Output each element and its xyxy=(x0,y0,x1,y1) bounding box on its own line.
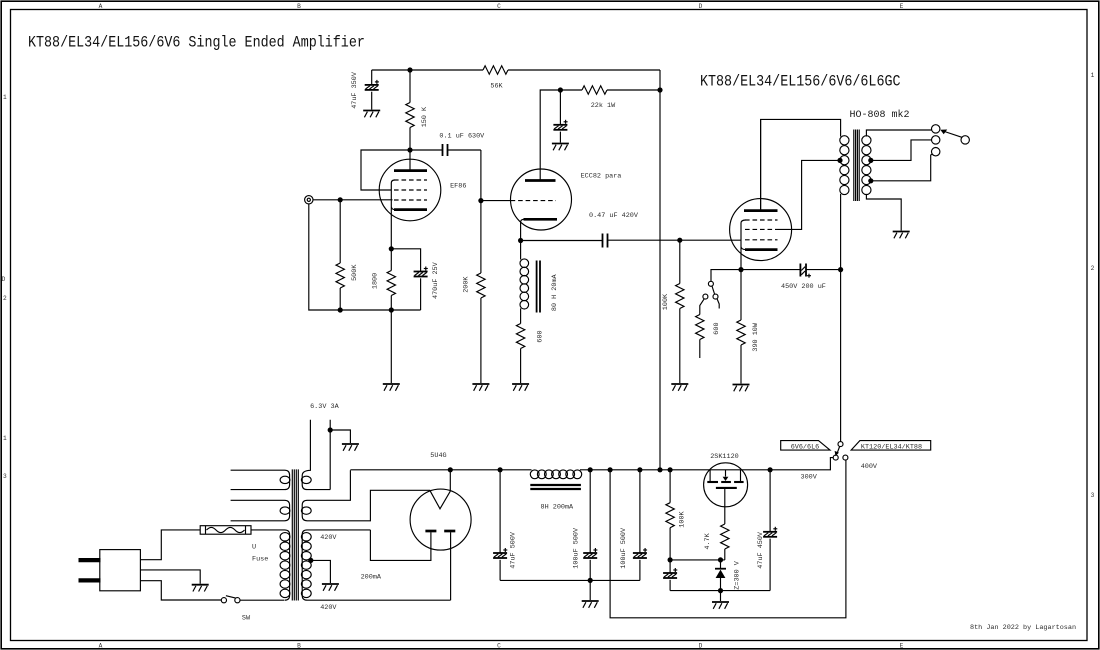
flag label KT120/EL34/KT88 xyxy=(851,441,931,452)
node ECC82 grid junction xyxy=(478,198,483,203)
svg-text:0.47 uF 420V: 0.47 uF 420V xyxy=(589,212,639,220)
resistor R 600 (cathode switch) xyxy=(696,299,722,358)
svg-text:450V 200 uF: 450V 200 uF xyxy=(781,283,826,291)
svg-text:150 K: 150 K xyxy=(421,106,429,127)
wire B+ filament line xyxy=(350,469,531,471)
svg-text:420V: 420V xyxy=(320,604,337,612)
svg-text:390 10W: 390 10W xyxy=(752,322,760,351)
wire zener to ground xyxy=(720,591,722,601)
svg-text:80 H 20mA: 80 H 20mA xyxy=(551,273,559,311)
OPT primary winding xyxy=(840,136,849,199)
svg-text:200mA: 200mA xyxy=(361,573,382,581)
power transformer heater winding A xyxy=(231,470,290,489)
node preamp B+ feed junction xyxy=(657,467,662,472)
wire secondary bottom to ground xyxy=(866,194,901,231)
capacitor decoupling (ECC82 plate) xyxy=(553,90,567,143)
svg-text:47uF 500V: 47uF 500V xyxy=(510,531,518,569)
tube KT88 output xyxy=(730,119,792,269)
switch cathode bias select xyxy=(703,281,719,308)
ground (390 10W) xyxy=(733,385,750,392)
node secondary tap 1 xyxy=(868,158,873,163)
flag label 6V6/6L6 xyxy=(781,441,830,452)
svg-text:A: A xyxy=(99,3,103,10)
svg-text:U: U xyxy=(252,544,256,552)
node KT88 cathode junction xyxy=(738,267,743,272)
svg-text:300V: 300V xyxy=(801,473,818,481)
capacitor gate filter xyxy=(663,560,677,591)
wire KT88 plate to OPT primary xyxy=(761,119,841,210)
node 47uF 500V junction xyxy=(498,467,503,472)
svg-text:KT88/EL34/EL156/6V6 Single End: KT88/EL34/EL156/6V6 Single Ended Amplifi… xyxy=(28,34,365,51)
wire secondary top to terminal 1 xyxy=(866,130,931,137)
fuse U xyxy=(200,526,268,564)
plug AC mains xyxy=(79,550,141,591)
power transformer 6.3V 3A winding xyxy=(301,403,339,490)
svg-text:200K: 200K xyxy=(463,276,471,293)
ground (EF86 cathode) xyxy=(383,384,400,391)
resistor 56K xyxy=(483,66,508,91)
wire filament to B+ line xyxy=(449,470,451,491)
node 100uF-2 junction xyxy=(637,467,642,472)
svg-text:6.3V 3A: 6.3V 3A xyxy=(310,403,339,411)
wire secondary tap 1 to terminal 2 xyxy=(871,140,932,161)
ground (100K KT88 grid) xyxy=(671,384,688,391)
svg-text:Z=300 V: Z=300 V xyxy=(733,560,741,589)
wire ECC82 plate lead xyxy=(540,90,560,181)
transistor 2SK1120 MOSFET xyxy=(704,453,748,507)
node EF86 plate junction xyxy=(407,147,412,152)
node zener top junction xyxy=(718,557,723,562)
wire B+ top rail left segment xyxy=(372,69,483,71)
svg-text:0.1 uF 630V: 0.1 uF 630V xyxy=(439,133,485,141)
wire gate node rail xyxy=(670,559,725,561)
svg-text:2: 2 xyxy=(1091,265,1095,272)
svg-text:100K: 100K xyxy=(678,510,686,527)
power transformer HV secondary winding xyxy=(301,530,450,612)
wire 300V to switch xyxy=(770,458,833,482)
input jack xyxy=(305,196,313,204)
svg-text:E: E xyxy=(900,643,904,650)
svg-text:D: D xyxy=(2,276,6,283)
svg-text:600: 600 xyxy=(713,322,721,334)
wire mains earth xyxy=(140,570,200,584)
wire HV bottom to 5U4G right plate xyxy=(450,532,452,600)
svg-text:2: 2 xyxy=(3,295,7,302)
capacitor C 100uF 500V second xyxy=(620,470,647,581)
OPT secondary winding xyxy=(862,136,871,195)
wire secondary tap 2 to terminal 3 xyxy=(871,154,933,181)
tube EF86 xyxy=(379,150,466,249)
svg-text:1: 1 xyxy=(3,94,7,101)
power transformer primary winding xyxy=(251,530,290,600)
wire B+ top rail right segment xyxy=(508,69,660,71)
ground (OPT secondary) xyxy=(893,232,910,239)
terminal output 1 xyxy=(932,125,940,133)
wire input ground return xyxy=(309,204,340,310)
resistor R 100K (KT88 grid) xyxy=(662,240,684,383)
power transformer 5V rectifier winding xyxy=(301,470,430,521)
wire 6.3V tap to ground xyxy=(330,430,350,443)
capacitor C 47uF 450V xyxy=(757,470,777,591)
node OPT UL tap xyxy=(837,158,842,163)
inductor L 80 H 20mA choke xyxy=(520,241,559,324)
svg-text:C: C xyxy=(497,643,501,650)
wire 400V to switch xyxy=(610,460,878,618)
wire filter ground rail xyxy=(500,579,640,581)
capacitor C 47uF 500V xyxy=(493,470,517,581)
power transformer heater winding B xyxy=(231,500,290,521)
svg-text:400V: 400V xyxy=(861,463,878,471)
svg-text:E: E xyxy=(900,3,904,10)
ground (filter) xyxy=(582,601,599,608)
terminal selector wiper xyxy=(940,130,969,145)
svg-text:1: 1 xyxy=(3,435,7,442)
capacitor C 0.47 uF 420V xyxy=(589,212,639,248)
svg-text:8H 200mA: 8H 200mA xyxy=(541,504,575,512)
ground (600 choke load) xyxy=(512,384,529,391)
svg-text:B: B xyxy=(297,3,301,10)
wire HV center tap to ground xyxy=(311,560,331,583)
wire SW to primary xyxy=(240,599,284,601)
wire coupling to ECC82 grid xyxy=(481,150,511,201)
node 1800 bottom junction xyxy=(389,307,394,312)
capacitor C 47uF 350V xyxy=(351,70,379,110)
svg-text:47uF 350V: 47uF 350V xyxy=(351,71,359,109)
node 500K bottom junction xyxy=(338,307,343,312)
node EF86 cathode junction xyxy=(389,246,394,251)
node B+ / 22k junction xyxy=(657,87,662,92)
wire KT88 screen to UL tap xyxy=(778,160,841,229)
ground (47uF 350V) xyxy=(363,111,380,118)
wire OPT primary B+ feed down xyxy=(840,199,842,442)
svg-text:22k 1W: 22k 1W xyxy=(591,102,616,110)
wire filter rail to ground xyxy=(589,580,591,600)
terminal output 3 xyxy=(932,148,940,156)
ground (decoupling cap) xyxy=(552,144,569,151)
svg-text:SW: SW xyxy=(242,615,251,623)
svg-text:HO-808 mk2: HO-808 mk2 xyxy=(850,109,910,121)
svg-text:D: D xyxy=(699,643,703,650)
node 400V riser junction xyxy=(608,467,613,472)
node KT88 grid junction xyxy=(677,238,682,243)
svg-text:6V6/6L6: 6V6/6L6 xyxy=(791,443,820,451)
svg-text:D: D xyxy=(699,3,703,10)
wire coupling to KT88 grid xyxy=(608,239,742,241)
svg-text:600: 600 xyxy=(536,330,544,342)
resistor R 1800 xyxy=(371,249,395,310)
node gate node junction xyxy=(668,557,673,562)
resistor R 4.7K xyxy=(704,488,729,560)
resistor R 22k 1W xyxy=(560,86,660,110)
svg-text:C: C xyxy=(497,3,501,10)
svg-text:B: B xyxy=(297,643,301,650)
wire preamp B+ vertical xyxy=(659,70,661,470)
tube ECC82 para xyxy=(511,169,622,241)
svg-text:56K: 56K xyxy=(490,83,503,91)
svg-text:500K: 500K xyxy=(351,264,359,281)
OPT core xyxy=(854,130,859,202)
ground (regulator) xyxy=(712,602,729,609)
capacitor C 470uF 25V xyxy=(391,249,440,310)
ground (6.3V winding) xyxy=(342,444,359,451)
terminal output 2 xyxy=(932,136,940,144)
ground (mains earth) xyxy=(192,585,209,592)
node secondary tap 2 xyxy=(868,178,873,183)
wire cathode network to ground xyxy=(390,310,392,383)
node filament B+ junction xyxy=(448,467,453,472)
svg-text:100K: 100K xyxy=(662,293,670,310)
ground (200K) xyxy=(472,384,489,391)
node ECC82 cathode junction xyxy=(518,238,523,243)
node 22k / decoupling cap junction xyxy=(558,87,563,92)
svg-text:3: 3 xyxy=(1091,492,1095,499)
svg-text:420V: 420V xyxy=(320,534,337,542)
node 6.3V ground tap xyxy=(328,427,333,432)
svg-text:5U4G: 5U4G xyxy=(430,452,446,460)
svg-text:EF86: EF86 xyxy=(450,182,466,190)
wire HV top to 5U4G left plate xyxy=(370,530,431,561)
switch SW mains xyxy=(221,596,251,623)
diode zener Z-300 V xyxy=(715,560,741,591)
svg-text:2SK1120: 2SK1120 xyxy=(710,453,739,461)
wire cathode network bottom rail xyxy=(340,309,420,311)
svg-text:1800: 1800 xyxy=(371,273,379,289)
resistor R 500K xyxy=(336,200,359,310)
node ultrapath / B+ feed junction xyxy=(838,267,843,272)
svg-text:KT88/EL34/EL156/6V6/6L6GC: KT88/EL34/EL156/6V6/6L6GC xyxy=(700,73,901,90)
node gate divider top junction xyxy=(668,467,673,472)
wire mains neutral to switch SW xyxy=(140,581,221,600)
svg-text:3: 3 xyxy=(3,473,7,480)
ground (HV center tap) xyxy=(322,584,339,591)
resistor R 200K xyxy=(463,201,486,383)
svg-text:470uF 25V: 470uF 25V xyxy=(432,261,440,299)
svg-text:A: A xyxy=(99,643,103,650)
capacitor C 100uF 500V first xyxy=(572,470,597,581)
node HV center tap xyxy=(308,558,313,563)
wire cathode output to coupling cap xyxy=(521,240,603,242)
wire cathode to bias switch xyxy=(711,270,741,282)
resistor R 100K (gate divider) xyxy=(666,470,687,560)
node B+ rail / 150K junction xyxy=(407,67,412,72)
switch B+ select xyxy=(833,442,848,461)
svg-text:Fuse: Fuse xyxy=(252,555,268,563)
node regulator ground junction xyxy=(718,588,723,593)
wire plate-to-screen strap xyxy=(361,150,410,190)
wire regulator ground rail xyxy=(670,590,770,592)
wire input to EF86 grid xyxy=(313,199,393,201)
tube 5U4G rectifier xyxy=(410,452,471,550)
capacitor C 450V 200 uF ultrapath xyxy=(741,264,841,292)
resistor R 390 10W xyxy=(737,270,760,384)
node input/500K junction xyxy=(338,197,343,202)
svg-text:100uF 500V: 100uF 500V xyxy=(620,527,628,569)
resistor R 600 (choke load) xyxy=(516,324,544,384)
node 300V output junction xyxy=(768,467,773,472)
svg-text:8th Jan 2022 by Lagartosan: 8th Jan 2022 by Lagartosan xyxy=(970,624,1076,632)
resistor R 150K xyxy=(406,70,429,150)
node filter ground junction xyxy=(588,578,593,583)
svg-text:4.7K: 4.7K xyxy=(704,532,712,549)
svg-text:KT120/EL34/KT88: KT120/EL34/KT88 xyxy=(861,443,922,451)
node 100uF-1 junction xyxy=(588,467,593,472)
svg-text:47uF 450V: 47uF 450V xyxy=(757,531,765,569)
svg-text:1: 1 xyxy=(1091,72,1095,79)
capacitor C 0.1 uF 630V xyxy=(410,133,485,156)
power transformer core xyxy=(292,469,298,600)
wire mains live to fuse xyxy=(140,530,200,560)
svg-text:ECC82 para: ECC82 para xyxy=(581,173,622,181)
inductor L 8H 200mA choke xyxy=(530,470,581,512)
svg-text:100uF 500V: 100uF 500V xyxy=(572,527,580,569)
